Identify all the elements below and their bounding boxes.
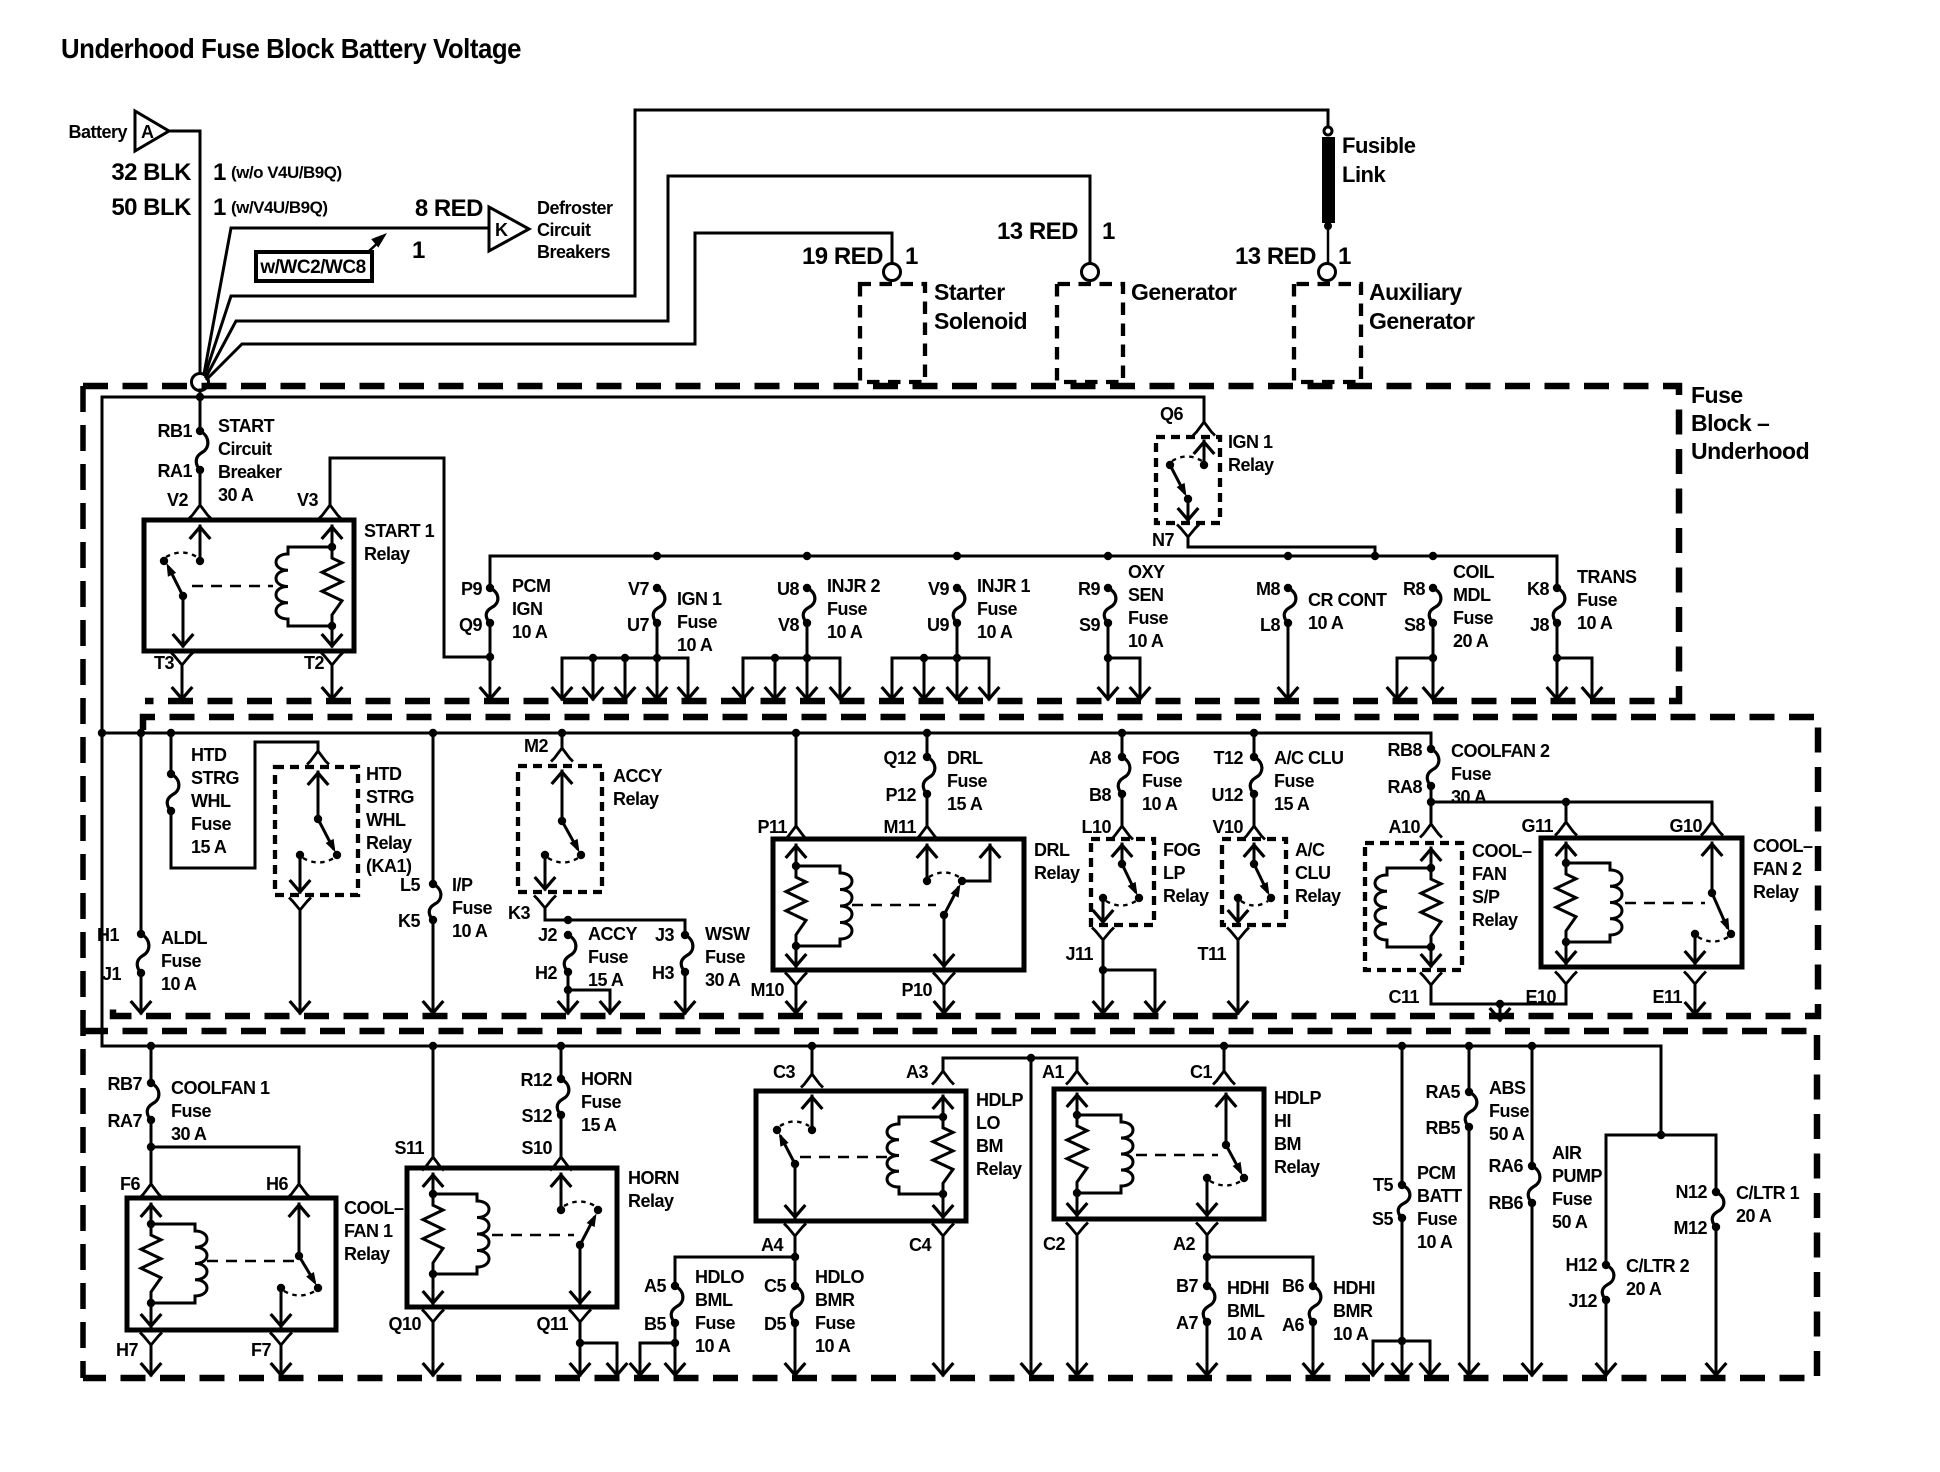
svg-text:WSW: WSW (705, 924, 750, 944)
wire to auxiliary generator via fusible link (205, 110, 1328, 375)
fuse TRANS (1553, 588, 1565, 623)
connector E11 (1685, 973, 1705, 985)
connector T11 (1228, 929, 1248, 941)
FOG switch (1118, 860, 1126, 868)
svg-text:Fusible: Fusible (1342, 133, 1416, 158)
svg-text:M11: M11 (883, 817, 916, 837)
connector V10 (1253, 794, 1256, 824)
arrow C/LTR1 to border (1715, 1227, 1718, 1375)
arrow from option box (369, 240, 381, 251)
connector H6 (289, 1184, 309, 1197)
START circuit breaker RB1/RA1 (196, 431, 208, 470)
svg-text:FOG: FOG (1163, 840, 1201, 860)
connector T3 (172, 654, 192, 666)
ACCLU pin arrow (1253, 844, 1256, 864)
connector F7 (271, 1334, 291, 1346)
svg-text:Relay: Relay (1274, 1157, 1320, 1177)
svg-text:10 A: 10 A (1333, 1324, 1369, 1344)
relay COOL-FAN 1 box (127, 1198, 336, 1330)
svg-text:ACCY: ACCY (613, 766, 662, 786)
START1 pin V3 arrow (331, 526, 334, 547)
svg-text:CLU: CLU (1295, 863, 1331, 883)
arrow H7 to border (150, 1349, 153, 1375)
fuse PCM IGN (653, 552, 661, 560)
svg-text:M2: M2 (524, 736, 548, 756)
CF2 dashed control (1625, 902, 1705, 905)
svg-text:(w/V4U/B9Q): (w/V4U/B9Q) (231, 198, 328, 217)
svg-text:V2: V2 (167, 490, 189, 510)
svg-text:Defroster: Defroster (537, 198, 613, 218)
fuse AIR PUMP RA6/RB6 (1528, 1042, 1536, 1050)
svg-text:30 A: 30 A (218, 485, 254, 505)
svg-text:G11: G11 (1521, 816, 1553, 836)
CF2 pin G11 arrow (1565, 843, 1568, 863)
svg-text:10 A: 10 A (1308, 613, 1344, 633)
svg-text:V7: V7 (628, 579, 650, 599)
manifold PCM BATT (1401, 1218, 1404, 1341)
HORN dashed control (492, 1234, 574, 1237)
svg-text:Relay: Relay (1295, 886, 1341, 906)
svg-text:RA8: RA8 (1387, 777, 1422, 797)
svg-text:Q10: Q10 (388, 1314, 421, 1334)
connector M10 (786, 974, 806, 986)
svg-text:Q11: Q11 (536, 1314, 568, 1334)
SP coil (1375, 868, 1431, 947)
svg-text:START: START (218, 416, 275, 436)
CF2 coil (1566, 863, 1622, 942)
svg-text:FOG: FOG (1142, 748, 1180, 768)
fuse block underhood dashed border (83, 386, 1679, 701)
fuse AC CLU T12/U12 (1250, 729, 1258, 737)
svg-text:BML: BML (1227, 1301, 1265, 1321)
svg-text:Underhood Fuse Block Battery V: Underhood Fuse Block Battery Voltage (61, 33, 521, 64)
connector E10 (1556, 973, 1576, 985)
wire C3 (808, 1042, 816, 1050)
svg-text:20 A: 20 A (1453, 631, 1489, 651)
svg-text:Fuse: Fuse (161, 951, 202, 971)
svg-text:WHL: WHL (191, 791, 231, 811)
fuse ABS RA5/RB5 (1465, 1042, 1473, 1050)
connector C2 (1067, 1224, 1087, 1236)
relay HDLP HI BM box (1054, 1089, 1264, 1219)
manifold ACCY fuse (568, 972, 610, 990)
CF2 resistor (1556, 863, 1576, 942)
svg-text:8 RED: 8 RED (415, 195, 483, 222)
svg-text:Relay: Relay (364, 544, 410, 564)
START1 switch (196, 557, 204, 565)
svg-text:STRG: STRG (366, 787, 414, 807)
svg-text:P11: P11 (757, 817, 787, 837)
connector Q6 (1194, 422, 1214, 435)
svg-text:FAN: FAN (1472, 864, 1507, 884)
START1 pin V2 arrow (199, 526, 202, 561)
svg-text:Fuse: Fuse (1691, 382, 1743, 408)
HDLPHI pin A1 arrow (1076, 1094, 1079, 1115)
relay IGN 1 dashed box (1156, 437, 1220, 523)
DRL switch fixed to blind pin (962, 880, 990, 883)
CF1 coil (151, 1224, 207, 1303)
svg-text:V9: V9 (928, 579, 950, 599)
svg-text:10 A: 10 A (977, 622, 1013, 642)
svg-text:Relay: Relay (366, 833, 412, 853)
svg-text:1: 1 (213, 159, 226, 186)
fuse DRL Q12/P12 (923, 729, 931, 737)
START1 coil (276, 547, 332, 626)
arrow below CR CONT (1287, 623, 1290, 699)
svg-text:Fuse: Fuse (705, 947, 746, 967)
svg-text:PUMP: PUMP (1552, 1166, 1602, 1186)
HDLPHI output arrow (1206, 1178, 1209, 1215)
svg-text:RB5: RB5 (1425, 1118, 1460, 1138)
svg-text:Fuse: Fuse (1552, 1189, 1593, 1209)
HDLPLO pin A3 arrow (942, 1096, 945, 1117)
svg-text:E11: E11 (1652, 987, 1682, 1007)
svg-text:H1: H1 (97, 925, 119, 945)
svg-text:32 BLK: 32 BLK (111, 159, 192, 186)
HDLPLO output arrow (794, 1164, 797, 1217)
arrow P10 to border (943, 989, 946, 1013)
svg-text:RB1: RB1 (157, 421, 192, 441)
svg-text:1: 1 (412, 237, 425, 264)
arrow C2 to border (1076, 1239, 1079, 1375)
connector V2 (190, 505, 210, 518)
svg-text:A6: A6 (1282, 1315, 1304, 1335)
relay START 1 box (144, 520, 354, 651)
wire K3 to fuses (545, 912, 685, 920)
svg-text:Fuse: Fuse (1577, 590, 1618, 610)
svg-text:Relay: Relay (1753, 882, 1799, 902)
svg-text:T3: T3 (154, 653, 174, 673)
manifold B5 (674, 1323, 677, 1343)
FOG pin arrow (1121, 844, 1124, 864)
DRL coil (796, 866, 852, 946)
svg-text:B7: B7 (1176, 1276, 1198, 1296)
svg-text:Block –: Block – (1691, 410, 1770, 436)
svg-text:Fuse: Fuse (171, 1101, 212, 1121)
connector N7 (1178, 526, 1198, 538)
connector C1 (1214, 1071, 1234, 1084)
svg-text:Fuse: Fuse (947, 771, 988, 791)
DRL switch (923, 877, 931, 885)
svg-text:V3: V3 (297, 490, 319, 510)
svg-text:50 A: 50 A (1552, 1212, 1588, 1232)
connector G10 (1702, 822, 1722, 835)
DRL bottom arrow left (795, 946, 798, 966)
svg-text:C5: C5 (764, 1276, 786, 1296)
svg-text:1: 1 (905, 243, 918, 270)
svg-text:ABS: ABS (1489, 1078, 1526, 1098)
svg-text:F6: F6 (120, 1174, 140, 1194)
CF1 pin F6 arrow (150, 1204, 153, 1224)
connector F6 (141, 1184, 161, 1197)
bus2 wire (102, 732, 1431, 735)
fuse bus wire (490, 556, 1557, 585)
svg-text:G10: G10 (1669, 816, 1702, 836)
arrow M10 to border (795, 989, 798, 1013)
manifold INJR2 fuse (743, 657, 840, 660)
SP pin arrow (1430, 848, 1433, 868)
svg-text:10 A: 10 A (827, 622, 863, 642)
svg-text:10 A: 10 A (1417, 1232, 1453, 1252)
connector J11 (1093, 929, 1113, 941)
DRL pin M11 arrow (926, 845, 929, 881)
wire C1 (1220, 1042, 1228, 1050)
svg-text:K5: K5 (398, 911, 420, 931)
svg-text:C/LTR 2: C/LTR 2 (1626, 1256, 1690, 1276)
svg-text:ACCY: ACCY (588, 924, 637, 944)
connector V3 (320, 505, 340, 518)
svg-text:J11: J11 (1065, 944, 1093, 964)
svg-text:Q6: Q6 (1160, 404, 1184, 424)
DRL dashed control (852, 904, 936, 907)
svg-text:LP: LP (1163, 863, 1185, 883)
fuse HDHI BML B7/A7 (1203, 1286, 1215, 1322)
svg-text:Fuse: Fuse (1128, 608, 1169, 628)
svg-text:HTD: HTD (366, 764, 402, 784)
svg-text:BATT: BATT (1417, 1186, 1462, 1206)
wire P11 (792, 729, 800, 737)
svg-text:J3: J3 (655, 925, 675, 945)
CF2 pin G10 arrow (1711, 843, 1714, 893)
svg-text:U12: U12 (1211, 785, 1243, 805)
relay COOL-FAN 2 box (1541, 838, 1742, 967)
main feeder wire left side (102, 396, 1204, 399)
HDLPLO pin C3 arrow (811, 1096, 814, 1130)
manifold INJR1 fuse (892, 657, 989, 660)
svg-text:C4: C4 (909, 1235, 931, 1255)
connector HTD relay pin (308, 751, 328, 764)
svg-text:COOL–: COOL– (1472, 841, 1532, 861)
svg-text:H12: H12 (1565, 1255, 1597, 1275)
CF1 output arrow (280, 1288, 283, 1326)
arrow A6 to border (1312, 1322, 1315, 1375)
svg-text:A10: A10 (1388, 817, 1420, 837)
wire S11 (429, 1042, 437, 1050)
relay HTD STRG WHL dashed box (275, 767, 358, 895)
svg-text:Relay: Relay (1472, 910, 1518, 930)
svg-text:BMR: BMR (1333, 1301, 1373, 1321)
CF2 switch (1708, 889, 1716, 897)
svg-text:IGN: IGN (512, 599, 543, 619)
svg-text:(KA1): (KA1) (366, 856, 412, 876)
svg-text:Fuse: Fuse (695, 1313, 736, 1333)
svg-text:A/C: A/C (1295, 840, 1325, 860)
svg-text:STRG: STRG (191, 768, 239, 788)
svg-text:H2: H2 (535, 963, 557, 983)
svg-text:RB6: RB6 (1488, 1193, 1523, 1213)
svg-text:P12: P12 (885, 785, 916, 805)
connector HTD relay out (290, 899, 310, 911)
svg-text:HDHI: HDHI (1227, 1278, 1269, 1298)
fuse COOLFAN2 RB8/RA8 (1430, 733, 1433, 749)
CF1 bottom arrow (150, 1303, 153, 1326)
connector M11 (926, 794, 929, 824)
svg-text:L5: L5 (400, 875, 420, 895)
bus3 wire (102, 1045, 1661, 1048)
svg-text:Fuse: Fuse (1274, 771, 1315, 791)
svg-text:A8: A8 (1089, 748, 1111, 768)
FOG output arrow (1102, 898, 1105, 922)
HTD relay switch (314, 815, 322, 823)
svg-text:A1: A1 (1042, 1062, 1064, 1082)
wire breaker to V2 (199, 470, 202, 503)
arrow F7 to border (280, 1349, 283, 1375)
connector S11 (423, 1157, 443, 1170)
svg-text:INJR 2: INJR 2 (827, 576, 881, 596)
fuse COOLFAN1 RB7/RA7 (147, 1042, 155, 1050)
connector L10 (1121, 794, 1124, 824)
connector T2 (322, 654, 342, 666)
svg-text:10 A: 10 A (1577, 613, 1613, 633)
HDLPHI resistor (1067, 1115, 1087, 1193)
relay HDLP LO BM box (756, 1091, 966, 1221)
HORN resistor (423, 1194, 443, 1274)
svg-text:(w/o V4U/B9Q): (w/o V4U/B9Q) (231, 163, 342, 182)
wire to generator (206, 176, 1090, 377)
connector H7 (141, 1334, 161, 1346)
connector S10 (560, 1115, 563, 1155)
svg-text:IGN 1: IGN 1 (1228, 432, 1273, 452)
svg-text:S/P: S/P (1472, 887, 1500, 907)
svg-text:Underhood: Underhood (1691, 438, 1809, 464)
svg-text:C3: C3 (773, 1062, 795, 1082)
arrow HTD relay to border (299, 914, 302, 1013)
wire M2 (558, 729, 566, 737)
svg-text:R9: R9 (1078, 579, 1100, 599)
wire A10 junction (1430, 786, 1433, 822)
svg-text:AIR: AIR (1552, 1143, 1582, 1163)
svg-text:10 A: 10 A (1142, 794, 1178, 814)
svg-text:J1: J1 (102, 964, 122, 984)
svg-text:RA5: RA5 (1425, 1082, 1460, 1102)
HDLPHI dashed control (1136, 1154, 1218, 1157)
svg-text:N12: N12 (1675, 1182, 1707, 1202)
svg-text:S10: S10 (521, 1138, 552, 1158)
CF1 resistor (141, 1224, 161, 1303)
svg-text:Fuse: Fuse (1451, 764, 1492, 784)
relay COOL-FAN S/P dashed box (1365, 843, 1462, 970)
svg-text:PCM: PCM (1417, 1163, 1456, 1183)
HDLPHI pin C1 arrow (1225, 1094, 1228, 1145)
HDLPLO dashed control (800, 1156, 892, 1159)
fuse HTD STRG WHL (167, 729, 175, 737)
wire RA7 to F6/H6 (150, 1120, 153, 1182)
fuse IP (429, 729, 437, 737)
svg-text:M8: M8 (1256, 579, 1280, 599)
relay AC CLU dashed box (1222, 839, 1286, 925)
HDLPLO resistor (933, 1117, 953, 1194)
fuse PCM BATT T5/S5 (1398, 1042, 1406, 1050)
svg-text:Relay: Relay (613, 789, 659, 809)
ACCY switch (558, 817, 566, 825)
arrow D5 to border (794, 1323, 797, 1375)
svg-text:TRANS: TRANS (1577, 567, 1637, 587)
svg-text:S8: S8 (1404, 615, 1426, 635)
manifold TRANS (1557, 657, 1592, 660)
svg-text:L8: L8 (1260, 615, 1280, 635)
SP bottom arrow (1430, 947, 1433, 966)
svg-text:M10: M10 (750, 980, 784, 1000)
SP resistor (1421, 868, 1441, 947)
svg-text:DRL: DRL (1034, 840, 1070, 860)
fuse ACCY J2/H2 (564, 935, 576, 972)
svg-text:N7: N7 (1152, 530, 1174, 550)
svg-text:w/WC2/WC8: w/WC2/WC8 (259, 257, 365, 278)
CF2 output arrow (1694, 934, 1697, 963)
svg-text:30 A: 30 A (1451, 787, 1487, 807)
svg-text:U7: U7 (627, 615, 649, 635)
svg-text:P10: P10 (901, 980, 932, 1000)
svg-text:ALDL: ALDL (161, 928, 207, 948)
svg-text:Fuse: Fuse (1142, 771, 1183, 791)
wire battery to junction (169, 131, 200, 374)
svg-text:J12: J12 (1568, 1291, 1597, 1311)
svg-text:Fuse: Fuse (452, 898, 493, 918)
starter solenoid component (884, 264, 901, 281)
svg-text:I/P: I/P (452, 875, 473, 895)
HORN switch (557, 1206, 565, 1214)
arrow IP fuse to border (432, 920, 435, 1013)
connector C11 (1421, 974, 1441, 986)
svg-text:K: K (495, 220, 508, 240)
svg-text:SEN: SEN (1128, 585, 1164, 605)
fuse FOG A8/B8 (1118, 729, 1126, 737)
svg-text:J8: J8 (1530, 615, 1550, 635)
svg-text:H6: H6 (266, 1174, 288, 1194)
svg-text:13 RED: 13 RED (1235, 243, 1316, 270)
svg-text:Fuse: Fuse (677, 612, 718, 632)
svg-text:RA6: RA6 (1488, 1156, 1523, 1176)
connector A4 (785, 1225, 805, 1237)
relay DRL box (773, 839, 1024, 970)
svg-text:K3: K3 (508, 903, 530, 923)
svg-text:BM: BM (976, 1136, 1003, 1156)
left dashed border (80, 386, 86, 1378)
svg-text:H3: H3 (652, 963, 674, 983)
svg-text:A3: A3 (906, 1062, 928, 1082)
svg-text:B5: B5 (644, 1314, 666, 1334)
arrow A7 to border (1206, 1322, 1209, 1375)
svg-text:L10: L10 (1081, 817, 1111, 837)
relay FOG LP dashed box (1091, 839, 1154, 925)
svg-text:10 A: 10 A (695, 1336, 731, 1356)
svg-text:S5: S5 (1372, 1209, 1394, 1229)
svg-text:Relay: Relay (1163, 886, 1209, 906)
svg-text:RB7: RB7 (107, 1074, 142, 1094)
connector P10 (934, 974, 954, 986)
svg-text:INJR 1: INJR 1 (977, 576, 1031, 596)
svg-text:RB8: RB8 (1387, 740, 1422, 760)
svg-text:15 A: 15 A (1274, 794, 1310, 814)
arrow C/LTR2 to border (1605, 1300, 1608, 1375)
wire A2 to fuses (1206, 1239, 1209, 1286)
svg-text:1: 1 (1102, 218, 1115, 245)
svg-text:Starter: Starter (934, 279, 1005, 305)
svg-text:V10: V10 (1212, 817, 1243, 837)
svg-text:J2: J2 (538, 925, 558, 945)
arrow ALDL to border (140, 973, 143, 1013)
ACCLU switch (1250, 860, 1258, 868)
svg-text:50 BLK: 50 BLK (111, 194, 192, 221)
svg-text:Relay: Relay (976, 1159, 1022, 1179)
START1 internal dashed link (192, 585, 273, 588)
bridge A3 A1 (943, 1057, 1077, 1060)
svg-text:B6: B6 (1282, 1276, 1304, 1296)
fusible link (1324, 127, 1332, 135)
section2 dashed border (113, 717, 1818, 1016)
auxiliary generator component (1319, 264, 1336, 281)
svg-text:IGN 1: IGN 1 (677, 589, 722, 609)
